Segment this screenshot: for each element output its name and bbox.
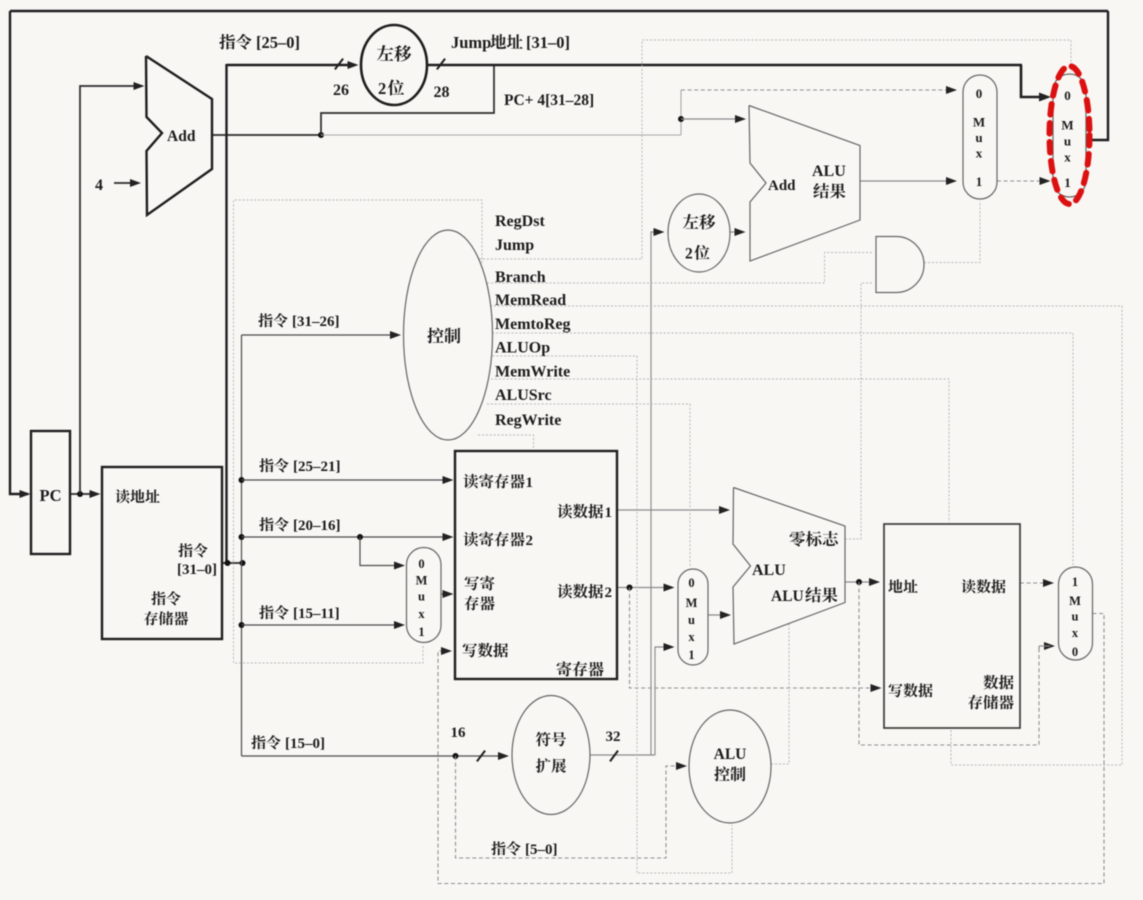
svg-text:Jump: Jump [495,237,534,254]
wire: RegDst control loop [234,200,483,663]
svg-text:RegDst: RegDst [495,213,545,230]
RegDst mux [407,548,442,643]
wire: Jump control to jump mux select [479,40,1071,259]
svg-text:1: 1 [418,625,424,639]
wire: PC output to instruction memory [70,493,97,495]
label: instruction [20-16] [259,517,288,531]
svg-text:[25–21]: [25–21] [293,459,341,475]
wire: ALUSrc mux output into ALU [708,614,726,616]
node: instr[20-16] branch to RegDst mux [357,534,363,540]
wire: instruction[25-21] to read register 1 [242,479,450,481]
label: instruction [15-0] [251,735,280,749]
wire: jump address elbow into jump mux input 0 [1021,65,1044,97]
wire: PC+4 into branch adder top input [681,118,742,120]
wire: constant 4 into Add [114,182,138,184]
svg-text:32: 32 [606,729,621,745]
adder Add (PC+4) [146,56,212,215]
svg-text:M: M [686,596,698,610]
svg-text:2: 2 [685,246,693,263]
svg-text:ALU: ALU [752,562,786,579]
svg-text:M: M [1069,594,1081,608]
wire: PC+4 rail to branch adder / PCSrc mux [321,134,681,136]
svg-text:[15–11]: [15–11] [293,606,340,622]
svg-text:RegWrite: RegWrite [495,412,561,429]
wire: read data 2 down to data memory write data [630,588,878,689]
svg-text:u: u [418,590,425,604]
control unit [404,230,493,440]
svg-text:M: M [1061,118,1073,133]
node: ALU result junction [856,579,862,585]
svg-text:PC: PC [40,486,62,505]
svg-text:ALU: ALU [812,163,846,180]
svg-text:2: 2 [526,533,534,549]
label: instruction [5-0] [491,841,520,855]
svg-text:2: 2 [378,79,386,98]
svg-text:M: M [416,574,428,588]
svg-text:1: 1 [526,475,534,491]
svg-text:1: 1 [1064,175,1071,190]
node: instr[20-16] tap [239,534,245,540]
svg-text:MemRead: MemRead [495,292,566,309]
shift-left-2 unit (jump) [361,25,427,105]
svg-text:2: 2 [605,585,613,601]
wire: PC feedback loop right vertical from jump mux output [1086,11,1108,140]
svg-text:Add: Add [167,128,196,145]
svg-text:x: x [1064,150,1071,165]
node: PC+4 branch junction [678,116,684,122]
svg-text:ALU: ALU [771,588,804,605]
ALU [733,488,845,645]
MemtoReg mux [1059,567,1093,660]
wire: ALU zero flag to AND gate [845,283,872,539]
wire: ALUOp control to ALU control [493,356,733,873]
wire: branch adder result to PCSrc mux input 1 [860,180,952,182]
wire: Add output (PC+4) [212,134,321,136]
wire: MemtoReg control to mux select [492,333,1073,565]
wire: jump address[31-0] from shift-left-2 to jump mux [427,64,1022,66]
svg-text:1: 1 [976,174,983,189]
wire: AND gate output to PCSrc mux select [924,201,980,263]
wire: instruction[31-26] into control [242,334,397,336]
svg-text:Branch: Branch [495,269,546,286]
wire: MemtoReg mux output return to register write data [438,614,1104,884]
wire: instruction[20-16] to read register 2 [242,536,450,538]
ALUSrc mux [678,569,708,665]
svg-text:M: M [973,115,985,130]
node: PC output junction [77,491,83,497]
svg-text:ALUOp: ALUOp [495,340,550,357]
node: instr[15-11] tap [239,622,245,628]
svg-text:u: u [688,613,695,627]
svg-text:u: u [975,130,982,145]
svg-text:u: u [1064,134,1071,149]
svg-text:ALUSrc: ALUSrc [495,387,552,404]
svg-text:16: 16 [451,725,467,741]
wire: Branch control to AND gate [487,253,872,284]
wire: read data 1 to ALU [617,509,725,511]
wire: ALUSrc control to mux select [487,404,690,567]
svg-text:26: 26 [333,82,349,99]
label: instruction [25-21] [259,458,288,472]
svg-text:[25–0]: [25–0] [256,33,300,52]
node: PC+4 junction [318,132,324,138]
node: instruction[15-0] junction [453,753,459,759]
node: instruction output junction B [240,560,246,566]
svg-text:x: x [976,146,983,161]
red dashed highlight ellipse [1050,66,1090,204]
wire: ALU result bypass to MemtoReg mux input 0 [859,582,1039,745]
wire: read data 2 to ALUSrc mux [617,587,670,589]
label: instruction [25-0] [219,34,251,50]
register file [455,451,617,679]
svg-text:[5–0]: [5–0] [525,842,558,858]
svg-text:28: 28 [434,84,450,101]
wire: PC feedback loop left vertical into PC [10,11,28,494]
wire: PCSrc mux output to jump mux input 1 [997,180,1045,182]
PCSrc mux [963,75,997,199]
wire: sign extend into ALUSrc mux input 1 [655,647,670,755]
svg-text:Add: Add [768,178,796,194]
svg-text:[31–26]: [31–26] [292,314,340,330]
svg-text:0: 0 [1072,645,1078,659]
wire: shift-left-2 output into branch adder [730,231,741,233]
node: instr[25-21] tap [239,477,245,483]
register PC [31,431,70,554]
wire: PC value up to Add [80,86,142,494]
svg-text:1: 1 [688,648,694,662]
svg-text:Jump: Jump [451,33,491,52]
wire: instruction field vertical rail [241,335,243,756]
svg-text:0: 0 [688,576,694,590]
svg-text:MemtoReg: MemtoReg [495,316,571,333]
svg-text:1: 1 [1072,575,1078,589]
wire: ALU control output to ALU [771,623,789,764]
wire: sign extend up to branch shift-left-2 [651,232,660,755]
wire: data memory read data to MemtoReg mux input 1 [1020,582,1048,584]
data memory [884,524,1020,728]
svg-text:u: u [1072,610,1079,624]
wire: PC feedback loop top rail [10,10,1108,12]
node: instruction output junction A [225,560,231,566]
svg-text:0: 0 [976,86,983,101]
instruction memory [102,467,222,639]
shift-left-2 unit (branch) [668,194,730,272]
svg-text:1: 1 [605,505,613,521]
ALU control unit [689,710,771,823]
svg-text:x: x [1072,626,1079,640]
wire: instruction[15-11] into RegDst mux input 1 [242,624,402,626]
wire: sign extend output (32) [590,754,655,756]
svg-text:x: x [688,630,695,644]
svg-text:[31–0]: [31–0] [526,33,570,52]
wire: RegDst mux output to write register [441,593,449,595]
sign extend unit [512,696,590,815]
wire: PC+4 into PCSrc mux input 0 [681,89,952,91]
jump mux (circled) [1053,74,1086,197]
svg-text:4: 4 [95,177,103,194]
svg-text:MemWrite: MemWrite [495,364,570,381]
wire: ALU result to data memory address [845,581,875,583]
label: instruction [31-26] [258,313,287,327]
svg-text:0: 0 [1064,88,1071,103]
wire: RegWrite control to register file [478,435,534,449]
node: read data 2 junction [627,585,633,591]
wire: instruction[25-0] to shift-left-2 [227,64,356,66]
svg-text:[20–16]: [20–16] [293,518,341,534]
wire: MemRead control to data memory [490,306,1122,765]
wire: instruction[25-0] vertical from instruction memory [225,64,227,563]
AND gate [876,237,924,293]
wire: instruction memory output with taps [222,562,243,564]
wire: MemWrite control to data memory [491,379,949,522]
svg-text:[31–0]: [31–0] [177,562,217,578]
svg-text:PC+ 4[31–28]: PC+ 4[31–28] [504,92,594,109]
wire: jump address upper-bits elbow [321,66,494,135]
adder Add (branch target) [749,106,860,262]
svg-text:0: 0 [418,557,424,571]
svg-text:[15–0]: [15–0] [285,736,325,752]
wire: instruction[20-16] into RegDst mux input 0 [360,537,401,566]
wire: instruction[5-0] to ALU control [456,756,683,858]
svg-text:x: x [418,607,425,621]
wire: instruction[15-0] to sign extend [242,755,505,757]
svg-text:ALU: ALU [714,746,747,763]
label: instruction [15-11] [259,605,288,619]
